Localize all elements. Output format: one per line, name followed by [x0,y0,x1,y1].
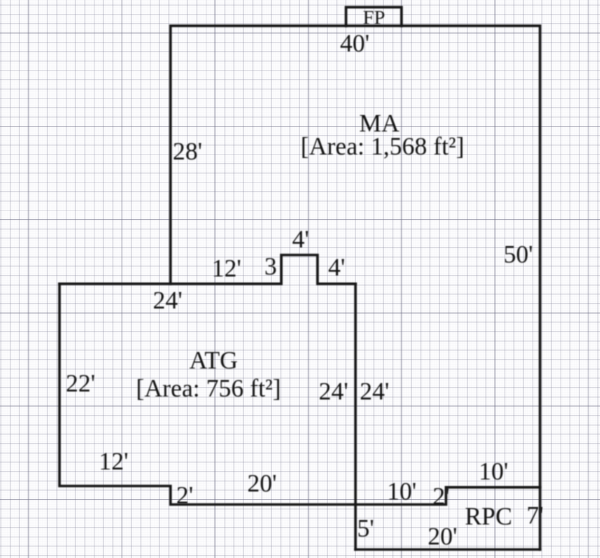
label 20' RPC bottom [428,525,458,550]
label 12' ATG bottom [99,449,129,474]
label 24' divider right [360,379,390,404]
room label ATG [189,349,238,374]
label 28' MA left [173,140,203,165]
label 2' step [176,483,193,508]
label 3 notch height [264,254,277,279]
label 4' notch right [328,256,345,281]
label 24' ATG top [153,288,183,313]
label FP [363,8,385,28]
label 4' notch top [292,228,309,253]
wall ATG top with notch [60,255,356,284]
room area ATG [136,376,281,401]
label 20' bottom mid [247,472,277,497]
room label RPC [465,504,512,529]
label 5' RPC left [357,517,374,542]
label 50' right [504,243,534,268]
label 24' divider left [319,379,349,404]
wall divider ATG/RPC [354,284,357,550]
wall RPC bottom [356,548,541,551]
wall MA left, top and right (outer outline) [171,26,541,550]
label 7' RPC right [526,504,543,529]
label 40' top [340,32,370,57]
fireplace FP box [346,7,402,26]
label 22' ATG left [66,372,96,397]
label 10' bottom mid [387,480,417,505]
room area MA [301,135,465,160]
label 12' notch left [212,257,242,282]
label 10' RPC top [479,459,509,484]
label 2' step right [433,485,450,510]
room label MA [359,111,399,136]
wall ATG left, bottom step and RPC upper edge [60,284,541,505]
